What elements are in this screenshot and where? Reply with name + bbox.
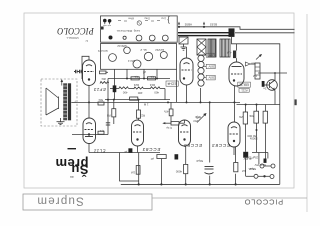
resistor R11 vertical: [112, 109, 116, 117]
svg-text:Wien: Wien: [128, 17, 134, 21]
svg-text:4000: 4000: [175, 170, 182, 174]
svg-text:2W: 2W: [239, 115, 243, 119]
tube V6: [179, 120, 191, 146]
dark dash under logo: [68, 148, 77, 149]
ground at T1: [181, 44, 187, 50]
wire v25 V4 top: [236, 44, 238, 51]
svg-text:B192: B192: [210, 23, 217, 27]
jack feed wires: [245, 158, 247, 177]
wire v10: [156, 70, 158, 79]
wire v15: [186, 85, 188, 102]
svg-text:0,1µ: 0,1µ: [166, 126, 172, 130]
wire h9: [72, 134, 108, 136]
wire v18: [209, 102, 211, 162]
svg-text:µF: µF: [150, 157, 154, 161]
node h7-R21: [167, 101, 169, 103]
wire v23: [256, 105, 258, 112]
svg-text:50µF: 50µF: [196, 159, 203, 163]
svg-text:400: 400: [154, 91, 159, 95]
svg-text:PICCOLO: PICCOLO: [244, 198, 283, 207]
capacitor C11 black: [264, 159, 267, 163]
wire T1 to enclosure: [232, 37, 237, 44]
diode D1: [245, 62, 250, 66]
svg-text:µ2: µ2: [142, 70, 146, 74]
wire v14: [185, 146, 187, 164]
node jack: [263, 175, 265, 177]
wire v24: [265, 105, 267, 112]
logo Suprem (rotated block): [55, 156, 88, 177]
svg-text:ECC83: ECC83: [183, 143, 202, 148]
title block rule: [152, 197, 307, 199]
node P2: [203, 26, 205, 28]
resistor R13 vertical: [136, 166, 140, 175]
mains wire top: [179, 27, 295, 30]
svg-text:AB92: AB92: [184, 23, 192, 27]
power transformer T1 core: [178, 32, 232, 33]
svg-text:MODELL: MODELL: [66, 36, 79, 40]
black cap C7: [243, 152, 248, 158]
boxed value label 2: [206, 64, 215, 68]
resistor R15 vertical: [184, 164, 188, 173]
electrolytic C8: [233, 51, 236, 59]
svg-text:R22: R22: [139, 114, 145, 118]
ground under speaker: [57, 118, 65, 125]
svg-text:R22: R22: [133, 83, 139, 87]
svg-text:ECC83: ECC83: [142, 147, 161, 152]
resistor R8 zigzag: [134, 87, 144, 89]
wire v27 tube V5 bottom: [137, 146, 139, 153]
resistor R19 vertical: [263, 111, 267, 123]
pickup jack T1: [260, 164, 264, 168]
wire v6: [126, 70, 128, 79]
pickup jack T2: [271, 164, 275, 168]
resistor R9 zigzag: [150, 87, 160, 89]
dial panel lower box: [101, 44, 177, 70]
svg-text:400: 400: [137, 91, 142, 95]
resistor R1: [100, 71, 107, 74]
wire v9: [143, 70, 145, 79]
svg-text:µF: µF: [124, 150, 127, 154]
svg-text:6,3V: 6,3V: [209, 53, 215, 57]
pickup jack B2: [270, 175, 274, 179]
wire v11: [160, 159, 162, 185]
Q1 emitter wire: [274, 91, 276, 105]
panel left blob: [101, 27, 104, 30]
pickup jack B1: [254, 174, 258, 178]
svg-text:}: }: [167, 16, 170, 25]
svg-text:µF: µF: [196, 116, 200, 120]
wire v20: [235, 147, 237, 163]
knob row: [109, 36, 113, 40]
Q1 top wire: [258, 72, 287, 74]
transistor Q1: [264, 80, 277, 91]
svg-text:PICCOLO: PICCOLO: [57, 26, 95, 37]
wire T2 stub: [71, 101, 77, 103]
wire v1: [88, 86, 90, 103]
wire V2 bottom: [88, 144, 90, 153]
wire v17: [200, 88, 202, 102]
wire V3 top stub: [186, 47, 188, 58]
tube V4: [229, 62, 244, 86]
loudspeaker dashed enclosure: [41, 79, 77, 126]
svg-text:EF13: EF13: [93, 87, 105, 92]
wire v28 tube V7 bottom: [233, 147, 235, 155]
wire v2 V1 grid: [82, 56, 89, 79]
svg-text:Lang. Mittel Kurzw.: Lang. Mittel Kurzw.: [116, 29, 140, 33]
page scan edge: [306, 14, 308, 212]
wire h10: [89, 152, 160, 154]
coil L3: [255, 63, 260, 79]
jack link bottom: [258, 175, 270, 177]
node P1: [178, 26, 180, 28]
tube V4 boxed label B: [239, 88, 249, 92]
T1 left shield box: [179, 37, 188, 44]
title block box (Suprem): [23, 194, 152, 210]
svg-text:R16: R16: [149, 83, 155, 87]
tube V3 boxed label: [166, 81, 178, 86]
socket X4: [144, 52, 152, 60]
jack link top: [264, 165, 271, 167]
resistor R16 vertical: [234, 163, 238, 172]
wire V4 bottom to V7 top: [233, 86, 235, 122]
capacitor on v3 drop: [106, 122, 110, 124]
resistor R4: [98, 131, 104, 134]
svg-text:47k: 47k: [163, 110, 168, 114]
svg-text:250V: 250V: [208, 65, 215, 69]
resistor R10: [130, 97, 138, 100]
svg-text:ant erde: ant erde: [102, 24, 111, 27]
mains wire lower: [235, 32, 295, 34]
wire v12: [164, 89, 166, 100]
wire v5: [120, 153, 139, 182]
resistor R12 vertical: [137, 110, 141, 118]
svg-text:2n: 2n: [263, 87, 267, 91]
resistor R17 vertical: [243, 112, 247, 124]
T1 primary winding (crossed box): [197, 39, 206, 55]
wire v-speaker: [88, 102, 90, 118]
boxed value label 3: [206, 75, 215, 80]
T2 arrow: [61, 81, 63, 86]
tube V1: [74, 60, 96, 86]
cap C10 mark: [295, 99, 297, 105]
wire h7 anode bus: [77, 101, 240, 103]
svg-text:prem: prem: [55, 156, 88, 171]
wire v3: [107, 79, 109, 135]
socket X5: [160, 52, 167, 59]
dial panel upper box: [101, 16, 178, 42]
svg-text:0,1: 0,1: [100, 129, 104, 133]
svg-text:4µF: 4µF: [226, 51, 231, 55]
svg-text:Suprem: Suprem: [36, 194, 83, 206]
svg-text:ECC83: ECC83: [211, 143, 230, 148]
dial scale ticks: [118, 20, 160, 23]
socket X2: [124, 47, 131, 54]
svg-text:AZ11: AZ11: [241, 88, 248, 92]
svg-text:50k: 50k: [98, 98, 103, 102]
output transformer T2 core: [68, 83, 71, 120]
resistor R7 zigzag: [119, 87, 129, 89]
tube V3: [180, 58, 193, 85]
grid arrow: [164, 122, 172, 124]
svg-text:ECH21: ECH21: [97, 49, 107, 53]
ground bus: [121, 183, 280, 185]
T1 secondary winding A: [208, 39, 216, 57]
tube V7: [228, 122, 240, 147]
svg-text:0,1: 0,1: [150, 75, 154, 78]
svg-text:1 M: 1 M: [143, 103, 148, 107]
resistor R21 vertical: [170, 102, 172, 109]
svg-text:30k: 30k: [101, 77, 106, 81]
wire v22: [245, 105, 247, 113]
svg-text:100: 100: [251, 62, 256, 66]
svg-text:R3: R3: [106, 114, 110, 118]
capacitor C5 electrolytic: [205, 167, 214, 175]
svg-text:r: r: [75, 100, 76, 104]
potentiometer P2: [197, 114, 206, 123]
wire h15 right: [237, 104, 281, 106]
black cap C6: [175, 154, 179, 159]
sheet frame: [24, 13, 294, 188]
svg-text:Graz: Graz: [144, 17, 150, 21]
svg-text:400: 400: [122, 91, 127, 95]
capacitor C9 (2n): [262, 81, 265, 87]
resistor R20: [171, 122, 179, 125]
svg-text:50mA: 50mA: [249, 167, 256, 171]
wire h6: [105, 99, 170, 101]
wire h4: [108, 78, 170, 80]
wire v8: [138, 153, 140, 185]
plug pin symbols: [104, 19, 111, 24]
svg-text:EBL21: EBL21: [239, 83, 249, 87]
right section enclosure: [237, 44, 280, 185]
tube V5: [132, 120, 144, 146]
resistor R5: [131, 77, 139, 80]
resistor R14: [157, 155, 166, 159]
output transformer T2 winding: [63, 83, 67, 120]
resistor R18 vertical: [254, 111, 259, 123]
wire v7: [138, 100, 140, 110]
tube V4 boxed label A: [238, 82, 251, 87]
svg-text:0,1: 0,1: [134, 75, 138, 78]
socket X1: [109, 54, 117, 62]
socket X3: [133, 60, 141, 68]
svg-text:250V: 250V: [208, 76, 215, 80]
capacitor C4 (electrolytic, black): [114, 69, 116, 99]
boxed value label near T1: [206, 53, 215, 57]
T1 secondary winding B: [220, 39, 230, 57]
dial pointer circle: [137, 21, 141, 25]
resistor R2 zigzag: [100, 82, 109, 84]
wire R1 link: [106, 71, 109, 73]
svg-text:1M: 1M: [130, 171, 135, 175]
resistor R3: [98, 102, 104, 105]
potentiometer P1 arrow: [256, 54, 262, 59]
junction cap black: [128, 148, 132, 153]
svg-text:50 000: 50 000: [247, 134, 256, 138]
wire h5: [110, 88, 119, 90]
speaker LS1 cone: [46, 88, 59, 115]
svg-text:1r: 1r: [85, 39, 88, 43]
T1 right end block: [229, 28, 235, 37]
tube V2: [83, 118, 96, 144]
svg-text:50k: 50k: [249, 114, 254, 118]
resistor R6: [148, 77, 156, 80]
Q1 collector wire: [274, 73, 276, 80]
svg-text:ECH4: ECH4: [167, 82, 176, 86]
svg-text:25µF 350V: 25µF 350V: [245, 156, 258, 160]
svg-text:EL 2: EL 2: [140, 48, 146, 52]
wire panel corner down: [176, 69, 178, 102]
svg-text:Linz: Linz: [161, 17, 166, 21]
wire R20 to V6: [179, 122, 185, 124]
heater winding loops: [198, 55, 204, 86]
